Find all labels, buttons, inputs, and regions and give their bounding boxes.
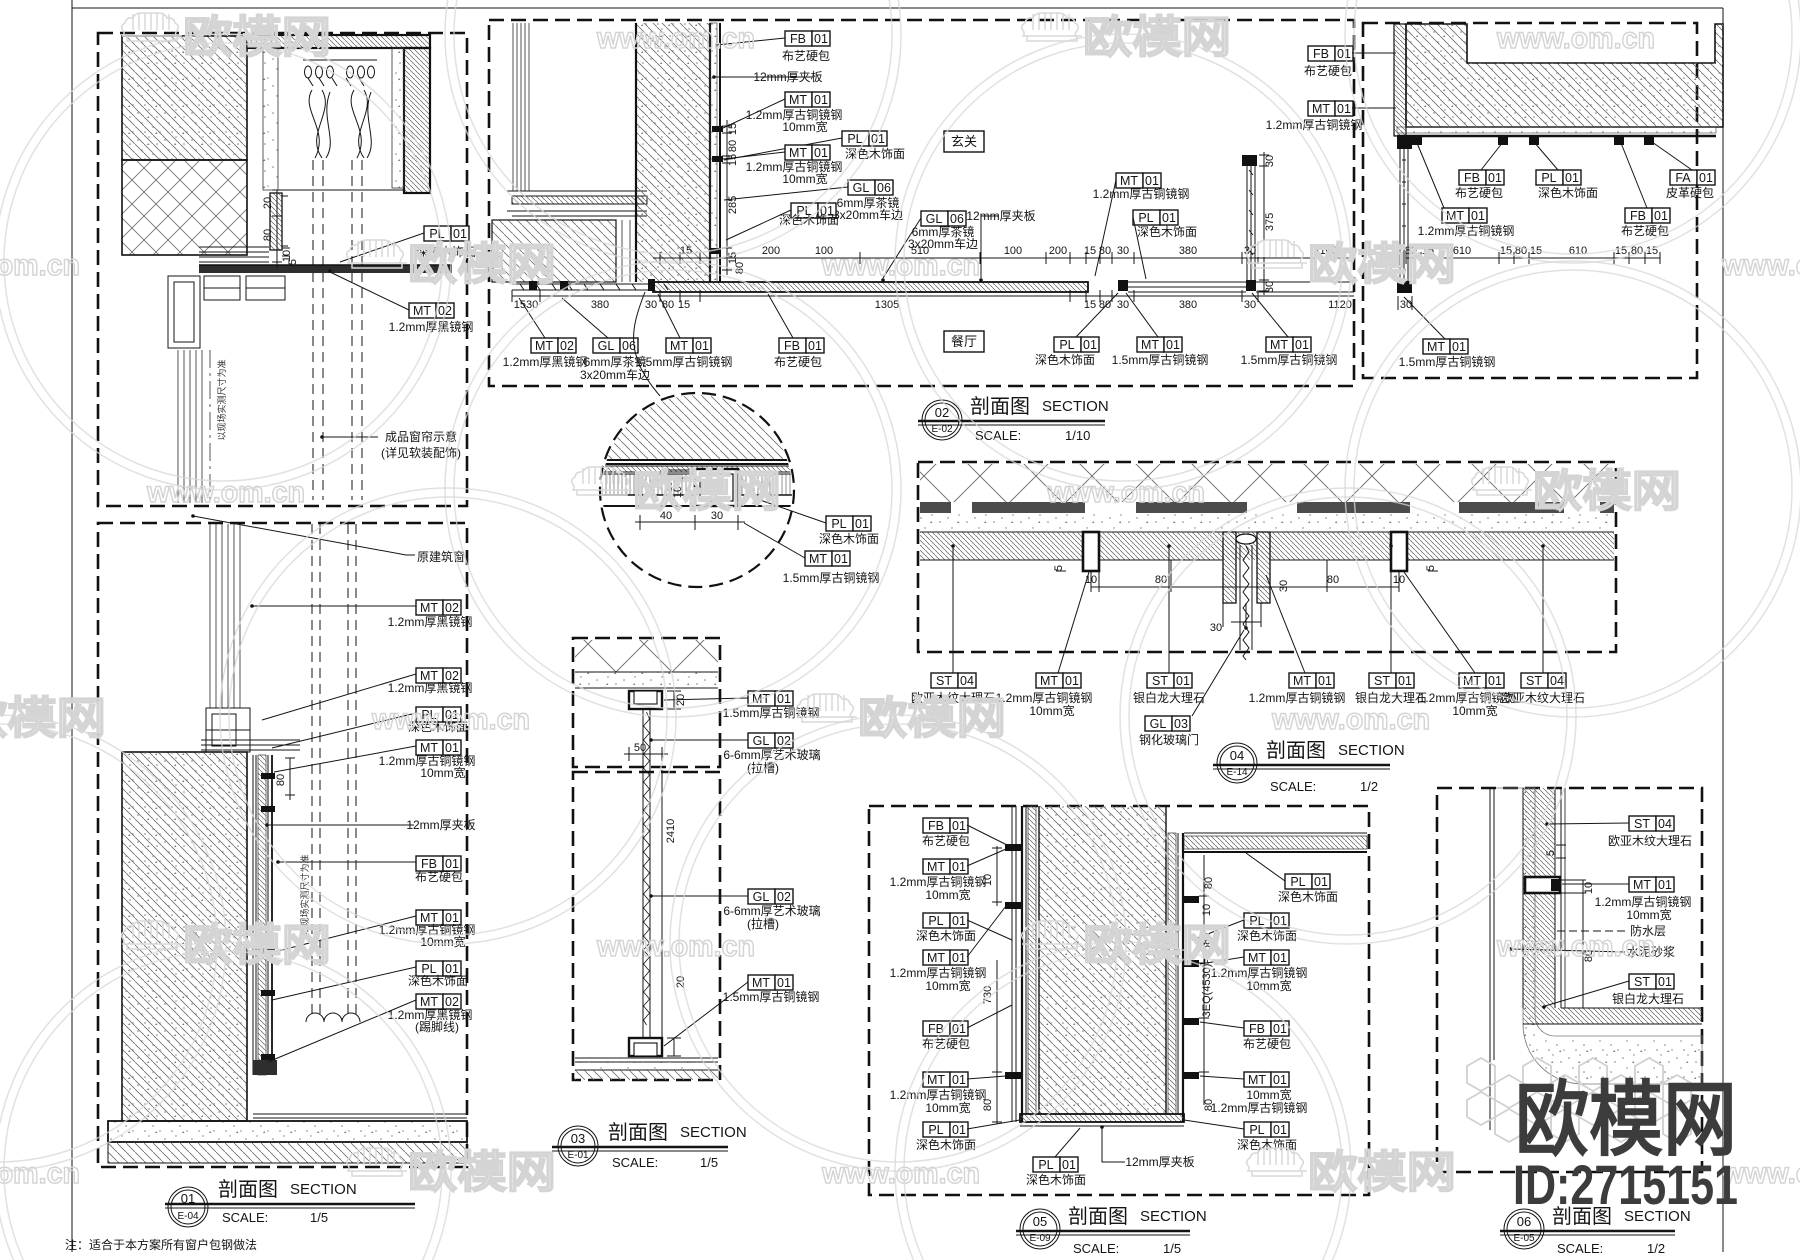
svg-text:05: 05 <box>1033 1214 1047 1229</box>
floor tile hexagons <box>1467 1058 1691 1142</box>
cement mortar hatch band <box>1523 788 1555 1008</box>
svg-text:1.2mm厚古铜镜钢: 1.2mm厚古铜镜钢 <box>1595 894 1692 909</box>
svg-text:01: 01 <box>1295 338 1309 352</box>
curtain dashed lines lower <box>312 524 356 1015</box>
svg-text:1.2mm厚古铜镜钢: 1.2mm厚古铜镜钢 <box>890 874 987 889</box>
svg-text:MT: MT <box>1040 674 1058 688</box>
window mullion top-left <box>513 23 529 191</box>
leader for curtain note <box>320 435 378 439</box>
svg-text:5: 5 <box>1053 565 1065 571</box>
svg-text:SECTION: SECTION <box>1042 398 1109 415</box>
svg-text:布艺硬包: 布艺硬包 <box>774 355 822 369</box>
svg-text:30: 30 <box>1264 155 1276 167</box>
svg-text:深色木饰面: 深色木饰面 <box>916 929 976 943</box>
svg-text:01: 01 <box>952 819 966 833</box>
svg-text:1.2mm厚古铜镜钢: 1.2mm厚古铜镜钢 <box>890 1087 987 1102</box>
detail04 label row <box>931 673 976 688</box>
svg-text:E-05: E-05 <box>1513 1233 1535 1244</box>
title block 06 <box>1500 1209 1675 1249</box>
svg-text:10mm宽: 10mm宽 <box>1246 978 1291 993</box>
head cap strips <box>201 740 300 750</box>
svg-text:注：适合于本方案所有窗户包钢做法: 注：适合于本方案所有窗户包钢做法 <box>65 1237 257 1252</box>
svg-text:GL: GL <box>926 212 943 226</box>
svg-text:深色木饰面: 深色木饰面 <box>1137 225 1197 239</box>
svg-text:E-01: E-01 <box>567 1150 589 1161</box>
svg-text:30: 30 <box>1278 580 1290 592</box>
svg-text:MT: MT <box>535 339 553 353</box>
title block 03 <box>552 1126 728 1166</box>
stone hatched band <box>920 532 1614 560</box>
screed speckle band <box>920 513 1614 532</box>
svg-text:80: 80 <box>1203 1099 1215 1111</box>
right label stack <box>1285 874 1330 889</box>
vertical dim stack beside wall <box>722 120 732 275</box>
svg-text:01: 01 <box>952 1123 966 1137</box>
svg-text:(踢脚线): (踢脚线) <box>415 1019 459 1034</box>
black mirror-steel sill band MT02 <box>199 265 452 273</box>
label PL01 deep wood veneer <box>424 226 469 241</box>
svg-text:01: 01 <box>814 93 828 107</box>
svg-text:MT: MT <box>670 339 688 353</box>
plywood strip on wall <box>710 23 720 282</box>
svg-text:01: 01 <box>1145 174 1159 188</box>
svg-text:04: 04 <box>960 674 974 688</box>
svg-text:1.5mm厚古铜镜钢: 1.5mm厚古铜镜钢 <box>1241 352 1338 367</box>
dims detail04 <box>1056 560 1438 627</box>
detail02 upper labels <box>785 31 830 46</box>
svg-text:ST: ST <box>1634 817 1650 831</box>
leader to PL01 <box>340 233 424 262</box>
ceiling speckle band <box>575 672 718 688</box>
svg-text:03: 03 <box>571 1131 585 1146</box>
svg-text:MT: MT <box>789 146 807 160</box>
window glazing verticals <box>210 524 240 708</box>
dim 20 bottom <box>667 1038 681 1056</box>
svg-text:10mm宽: 10mm宽 <box>420 765 465 780</box>
svg-text:02: 02 <box>445 995 459 1009</box>
svg-text:15: 15 <box>680 245 692 257</box>
svg-text:1/2: 1/2 <box>1360 779 1378 794</box>
bottom labels detail05 <box>1033 1157 1078 1172</box>
bottom steel channel <box>629 1038 662 1056</box>
svg-text:SCALE:: SCALE: <box>1557 1241 1603 1256</box>
svg-text:01: 01 <box>1273 1022 1287 1036</box>
svg-text:MT: MT <box>1427 340 1445 354</box>
svg-text:01: 01 <box>1083 338 1097 352</box>
outer wall face lines <box>1490 788 1494 1130</box>
svg-text:15: 15 <box>1084 299 1096 311</box>
svg-text:ID:2715151: ID:2715151 <box>1513 1153 1738 1216</box>
dashed border detailTR <box>1363 23 1697 378</box>
MT clips on wall face <box>710 126 723 254</box>
svg-text:GL: GL <box>598 339 615 353</box>
svg-text:06: 06 <box>950 212 964 226</box>
svg-text:01: 01 <box>1398 674 1412 688</box>
svg-text:10mm宽: 10mm宽 <box>1626 907 1671 922</box>
svg-text:10mm宽: 10mm宽 <box>925 1100 970 1115</box>
svg-text:01: 01 <box>1314 875 1328 889</box>
svg-text:02: 02 <box>445 601 459 615</box>
TR wall hatched L-mass <box>1406 24 1723 127</box>
floor slab speckled <box>108 1121 467 1163</box>
curtain box top plate <box>247 35 430 48</box>
ceiling cross band <box>575 640 718 672</box>
svg-text:10mm宽: 10mm宽 <box>925 978 970 993</box>
concrete speckled L-band <box>1496 788 1702 1084</box>
svg-text:MT: MT <box>789 93 807 107</box>
svg-text:SECTION: SECTION <box>1140 1208 1207 1225</box>
svg-text:01: 01 <box>1337 102 1351 116</box>
svg-text:皮革硬包: 皮革硬包 <box>1666 186 1714 200</box>
curtain fabric folds <box>309 90 371 158</box>
svg-text:80: 80 <box>1327 574 1339 586</box>
svg-text:12mm厚夹板: 12mm厚夹板 <box>966 209 1035 223</box>
svg-text:80: 80 <box>982 1099 994 1111</box>
svg-text:3x20mm车边: 3x20mm车边 <box>580 367 650 382</box>
svg-text:FB: FB <box>1630 209 1646 223</box>
wood face panel below pocket <box>270 193 288 250</box>
svg-text:MT: MT <box>1312 102 1330 116</box>
svg-text:MT: MT <box>1633 878 1651 892</box>
sill band left of wall <box>512 284 668 290</box>
bubble dashed circle <box>600 393 794 587</box>
svg-text:1.5mm厚古铜镜钢: 1.5mm厚古铜镜钢 <box>636 354 733 369</box>
svg-text:MT: MT <box>1270 338 1288 352</box>
TR fixing clips <box>1412 136 1654 145</box>
svg-text:FB: FB <box>1313 47 1329 61</box>
svg-text:380: 380 <box>1179 299 1197 311</box>
dashed border detail05 <box>869 806 1369 1195</box>
svg-text:04: 04 <box>1550 674 1564 688</box>
room name dining <box>944 331 984 352</box>
svg-text:PL: PL <box>1038 1158 1053 1172</box>
svg-text:ST: ST <box>1152 674 1168 688</box>
embedded steel channel left <box>1083 532 1099 571</box>
dim row lower <box>512 290 1354 302</box>
bubble layer bands <box>600 460 794 506</box>
svg-text:01: 01 <box>952 951 966 965</box>
svg-text:PL: PL <box>1138 211 1153 225</box>
svg-text:20: 20 <box>675 976 687 988</box>
dashed border detail01 lower <box>98 523 467 1167</box>
floor hatch band <box>1523 1008 1702 1024</box>
svg-text:PL: PL <box>1290 875 1305 889</box>
svg-text:SECTION: SECTION <box>680 1124 747 1141</box>
svg-text:01: 01 <box>1166 338 1180 352</box>
interior face line <box>1561 788 1565 1008</box>
svg-text:以现场实测尺寸为准: 以现场实测尺寸为准 <box>216 359 227 440</box>
small black floor blocks <box>529 279 1256 291</box>
leader original window <box>191 514 415 555</box>
svg-text:MT: MT <box>927 951 945 965</box>
svg-text:剖面图: 剖面图 <box>1266 739 1326 762</box>
svg-text:01: 01 <box>952 1073 966 1087</box>
svg-text:PL: PL <box>1541 171 1556 185</box>
dims detail05 <box>992 846 1209 1124</box>
svg-text:剖面图: 剖面图 <box>970 395 1030 418</box>
centre dash-dot line <box>209 350 211 503</box>
dashed border detail01 upper <box>98 33 467 506</box>
svg-text:欧亚木纹大理石: 欧亚木纹大理石 <box>1608 834 1692 848</box>
svg-text:1.2mm厚黑镜钢: 1.2mm厚黑镜钢 <box>503 354 588 369</box>
svg-text:30: 30 <box>1210 622 1222 634</box>
svg-text:GL: GL <box>753 734 770 748</box>
leader dots detail04 <box>951 544 1545 630</box>
svg-text:MT: MT <box>1141 338 1159 352</box>
curtain box right wall <box>404 48 430 193</box>
svg-text:01: 01 <box>1471 209 1485 223</box>
svg-text:SECTION: SECTION <box>290 1181 357 1198</box>
svg-text:30: 30 <box>645 299 657 311</box>
svg-text:(拉槽): (拉槽) <box>747 916 779 931</box>
svg-text:01: 01 <box>1273 951 1287 965</box>
TR left stud wall strip <box>1394 24 1406 136</box>
svg-text:MT: MT <box>420 741 438 755</box>
svg-text:FB: FB <box>1464 171 1480 185</box>
cavity lines <box>622 220 630 282</box>
svg-text:E-04: E-04 <box>177 1211 199 1222</box>
svg-text:GL: GL <box>1150 717 1167 731</box>
svg-text:01: 01 <box>834 552 848 566</box>
svg-text:深色木饰面: 深色木饰面 <box>819 532 879 546</box>
svg-text:5: 5 <box>287 259 299 265</box>
svg-text:FB: FB <box>790 32 806 46</box>
svg-text:01: 01 <box>1273 1123 1287 1137</box>
left label stack <box>923 818 968 833</box>
svg-text:1/2: 1/2 <box>1647 1241 1665 1256</box>
svg-text:01: 01 <box>1337 47 1351 61</box>
structural wall hatched <box>122 752 247 1121</box>
left face lines <box>1012 806 1016 1122</box>
svg-text:01: 01 <box>814 146 828 160</box>
svg-text:ST: ST <box>1634 975 1650 989</box>
svg-text:FB: FB <box>784 339 800 353</box>
svg-text:02: 02 <box>560 339 574 353</box>
svg-text:深色木饰面: 深色木饰面 <box>1026 1173 1086 1187</box>
svg-text:原建筑窗: 原建筑窗 <box>417 549 465 564</box>
svg-text:02: 02 <box>777 890 791 904</box>
svg-text:5: 5 <box>1545 850 1557 856</box>
embedded steel bracket <box>1525 877 1560 893</box>
svg-text:成品窗帘示意: 成品窗帘示意 <box>385 429 457 444</box>
dim 50 <box>624 747 668 761</box>
svg-text:1.2mm厚古铜镜钢: 1.2mm厚古铜镜钢 <box>1093 186 1190 201</box>
svg-text:欧亚木纹大理石: 欧亚木纹大理石 <box>1501 691 1585 705</box>
svg-text:01: 01 <box>1176 674 1190 688</box>
svg-text:01: 01 <box>1488 674 1502 688</box>
inner lining speckled strip <box>263 48 404 190</box>
title block 02 <box>918 400 1105 440</box>
svg-text:6-6mm厚艺术玻璃: 6-6mm厚艺术玻璃 <box>723 904 820 918</box>
svg-text:MT: MT <box>752 976 770 990</box>
skirting block MT02 <box>253 1060 277 1075</box>
svg-text:FA: FA <box>1675 171 1691 185</box>
TR finish band under wall <box>1397 127 1716 136</box>
svg-text:01: 01 <box>445 857 459 871</box>
svg-text:200: 200 <box>1049 245 1067 257</box>
ceiling band to the right <box>1184 833 1367 852</box>
svg-text:1.2mm厚古铜镜钢: 1.2mm厚古铜镜钢 <box>1266 117 1363 132</box>
svg-text:10mm宽: 10mm宽 <box>1246 1087 1291 1102</box>
svg-text:12mm厚夹板: 12mm厚夹板 <box>1125 1155 1194 1169</box>
svg-text:SCALE:: SCALE: <box>1270 779 1316 794</box>
svg-text:15: 15 <box>727 123 739 135</box>
svg-text:PL: PL <box>429 227 444 241</box>
svg-text:01: 01 <box>777 976 791 990</box>
svg-text:15: 15 <box>1615 245 1627 257</box>
svg-text:200: 200 <box>762 245 780 257</box>
svg-text:2410: 2410 <box>665 819 677 843</box>
dashed border detail06 <box>1437 788 1702 1172</box>
stone sill stack <box>507 191 647 216</box>
svg-text:MT: MT <box>420 601 438 615</box>
svg-text:餐厅: 餐厅 <box>951 334 977 349</box>
svg-text:01: 01 <box>1062 1158 1076 1172</box>
svg-text:1/5: 1/5 <box>1163 1241 1181 1256</box>
svg-text:SCALE:: SCALE: <box>1073 1241 1119 1256</box>
svg-text:GL: GL <box>753 890 770 904</box>
svg-text:30: 30 <box>1117 245 1129 257</box>
finished floor line <box>253 1114 467 1118</box>
labels detail03 upper <box>748 691 793 706</box>
glass door assembly centre <box>1223 532 1270 660</box>
svg-text:01: 01 <box>1658 975 1672 989</box>
cross-hatched masonry block <box>122 160 247 255</box>
svg-text:01: 01 <box>808 339 822 353</box>
svg-text:10mm宽: 10mm宽 <box>1452 703 1497 718</box>
svg-text:1.2mm厚黑镜钢: 1.2mm厚黑镜钢 <box>388 680 473 695</box>
svg-text:10: 10 <box>1393 574 1405 586</box>
svg-text:10: 10 <box>982 874 994 886</box>
svg-text:01: 01 <box>855 517 869 531</box>
pocket soffit line <box>282 189 404 191</box>
svg-text:01: 01 <box>1273 1073 1287 1087</box>
svg-text:10mm宽: 10mm宽 <box>782 119 827 134</box>
svg-text:1.5mm厚古铜镜钢: 1.5mm厚古铜镜钢 <box>1112 352 1209 367</box>
TR dim 30 <box>1398 296 1412 310</box>
svg-text:MT: MT <box>1248 1073 1266 1087</box>
floor finish band hatched <box>653 282 1088 292</box>
sill finish stack <box>199 247 269 262</box>
svg-text:FB: FB <box>928 819 944 833</box>
svg-text:30: 30 <box>1117 299 1129 311</box>
svg-text:80: 80 <box>275 774 287 786</box>
svg-text:钢化玻璃门: 钢化玻璃门 <box>1139 732 1199 747</box>
svg-text:15: 15 <box>1084 245 1096 257</box>
svg-text:10: 10 <box>1201 904 1213 916</box>
svg-text:01: 01 <box>1452 340 1466 354</box>
curtain dashed drop lines <box>313 160 362 500</box>
svg-text:01: 01 <box>695 339 709 353</box>
curtain bottom arcs <box>306 1013 360 1022</box>
svg-text:E-09: E-09 <box>1029 1233 1051 1244</box>
svg-text:03: 03 <box>1174 717 1188 731</box>
svg-text:04: 04 <box>1230 748 1244 763</box>
svg-text:12mm厚夹板: 12mm厚夹板 <box>406 818 475 832</box>
svg-text:01: 01 <box>445 741 459 755</box>
svg-text:深色木饰面: 深色木饰面 <box>916 1138 976 1152</box>
leader to MT02 <box>330 272 409 310</box>
svg-text:04: 04 <box>1658 817 1672 831</box>
svg-text:1.5mm厚古铜镜钢: 1.5mm厚古铜镜钢 <box>723 989 820 1004</box>
svg-text:FB: FB <box>1249 1022 1265 1036</box>
svg-text:MT: MT <box>927 1073 945 1087</box>
svg-text:深色木饰面: 深色木饰面 <box>1278 890 1338 904</box>
svg-text:SCALE:: SCALE: <box>222 1210 268 1225</box>
lower side wall hatched <box>492 220 616 282</box>
svg-text:ST: ST <box>1526 674 1542 688</box>
dashed border detail03 upper <box>573 638 720 767</box>
svg-text:30: 30 <box>1400 299 1412 311</box>
svg-text:PL: PL <box>928 914 943 928</box>
svg-text:80: 80 <box>727 140 739 152</box>
bottom cap layers <box>1020 1114 1184 1126</box>
window frame head profiles <box>206 708 250 752</box>
glass screen vertical <box>1247 166 1255 280</box>
label MT02 black mirror steel <box>409 303 454 318</box>
left finish build-up <box>1022 806 1039 1122</box>
svg-text:SCALE:: SCALE: <box>612 1155 658 1170</box>
title block 01 <box>165 1187 415 1227</box>
svg-text:3x20mm车边: 3x20mm车边 <box>833 207 903 222</box>
svg-text:1.5mm厚古铜镜钢: 1.5mm厚古铜镜钢 <box>1399 354 1496 369</box>
svg-text:01: 01 <box>181 1191 195 1206</box>
svg-text:MT: MT <box>420 995 438 1009</box>
svg-text:10mm宽: 10mm宽 <box>782 171 827 186</box>
svg-text:MT: MT <box>1248 951 1266 965</box>
dims left of finish <box>285 758 295 800</box>
dashed border detail03 lower <box>573 772 720 1080</box>
svg-text:10mm宽: 10mm宽 <box>1029 703 1074 718</box>
dashed border detail04 <box>918 462 1616 652</box>
svg-text:MT: MT <box>809 552 827 566</box>
svg-text:银白龙大理石: 银白龙大理石 <box>1612 991 1684 1006</box>
svg-text:01: 01 <box>814 32 828 46</box>
dim row upper <box>653 252 1354 264</box>
svg-text:MT: MT <box>413 304 431 318</box>
window frame profiles <box>168 276 285 348</box>
bubble labels <box>826 516 871 531</box>
top steel channel MT01 <box>629 691 662 709</box>
TR left vertical mirror channel <box>1400 148 1408 281</box>
embedded steel channel right <box>1391 532 1407 571</box>
svg-text:MT: MT <box>927 860 945 874</box>
svg-text:6-6mm厚艺术玻璃: 6-6mm厚艺术玻璃 <box>723 748 820 762</box>
svg-text:1.2mm厚古铜镜钢: 1.2mm厚古铜镜钢 <box>1211 1100 1308 1115</box>
svg-text:剖面图: 剖面图 <box>608 1121 668 1144</box>
floor layers detail03 <box>575 1058 718 1062</box>
svg-text:01: 01 <box>777 692 791 706</box>
svg-text:深色木饰面: 深色木饰面 <box>408 974 468 988</box>
dark embed bars <box>920 502 1614 513</box>
room name entry <box>944 131 984 152</box>
svg-text:01: 01 <box>1699 171 1713 185</box>
svg-text:06: 06 <box>1517 1214 1531 1229</box>
svg-text:375: 375 <box>1264 213 1276 231</box>
dims detail06 <box>1556 845 1588 1008</box>
detail02 bottom labels <box>531 338 576 353</box>
svg-text:PL: PL <box>1249 1123 1264 1137</box>
svg-text:PL: PL <box>847 132 862 146</box>
svg-text:30: 30 <box>1244 299 1256 311</box>
svg-text:01: 01 <box>1162 211 1176 225</box>
curtain track hooks <box>303 60 377 86</box>
svg-text:布艺硬包: 布艺硬包 <box>415 870 463 884</box>
svg-text:15: 15 <box>727 154 739 166</box>
svg-text:剖面图: 剖面图 <box>218 1178 278 1201</box>
bubble dims <box>635 470 745 530</box>
bubble recessed channel <box>695 469 738 506</box>
